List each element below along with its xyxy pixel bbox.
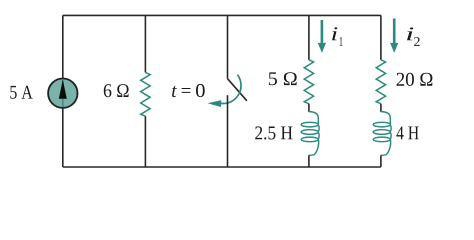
label i2: [407, 27, 420, 46]
wire switch branch bottom: [227, 95, 229, 167]
wire bottom rail: [63, 166, 381, 168]
wire between 20-ohm and inductor: [380, 104, 382, 112]
current arrow i1: [318, 20, 326, 53]
current source 5 A: [48, 79, 77, 108]
inductor 4 H: [373, 112, 391, 156]
label 4 H: [396, 126, 418, 139]
wire 20-ohm branch bottom: [380, 155, 382, 167]
wire switch branch top: [227, 15, 229, 78]
wire left branch: [62, 15, 64, 167]
resistor 20 ohm: [376, 60, 385, 104]
switch blade: [228, 79, 247, 101]
wire 5-ohm branch bottom: [308, 155, 310, 167]
label 2.5 H: [255, 126, 292, 139]
label i1: [332, 27, 342, 45]
label t = 0: [172, 84, 205, 97]
current arrow i2: [390, 19, 398, 53]
resistor 6 ohm: [141, 72, 150, 116]
wire 6-ohm branch top: [144, 15, 146, 72]
wire 6-ohm branch bottom: [144, 116, 146, 167]
switch action arrow: [208, 75, 241, 107]
wire top rail: [63, 14, 381, 16]
label 6 ohm: [104, 84, 129, 97]
wire 20-ohm branch top: [380, 15, 382, 59]
wire between 5-ohm and inductor: [308, 104, 310, 112]
label 5 A: [10, 86, 32, 99]
label 5 ohm: [269, 72, 297, 85]
inductor 2.5 H: [301, 112, 319, 156]
resistor 5 ohm: [304, 60, 313, 104]
wire 5-ohm branch top: [308, 15, 310, 59]
label 20 ohm: [397, 73, 433, 86]
